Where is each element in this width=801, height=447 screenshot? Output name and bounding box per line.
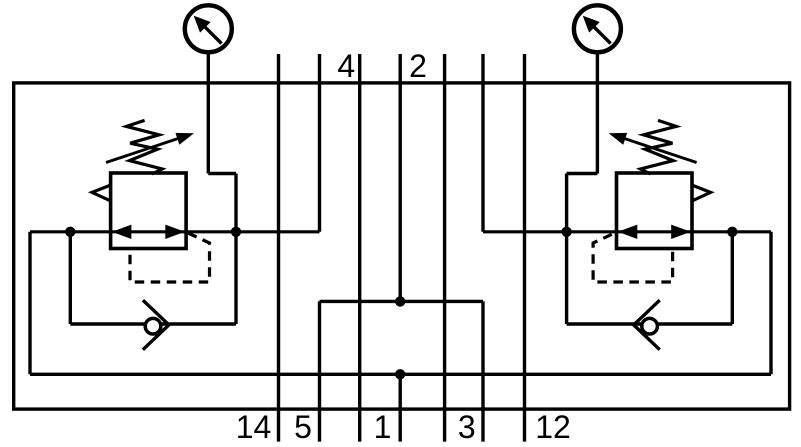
svg-text:2: 2 bbox=[409, 48, 427, 84]
svg-text:14: 14 bbox=[236, 409, 272, 445]
svg-text:1: 1 bbox=[374, 409, 392, 445]
svg-text:4: 4 bbox=[337, 48, 355, 84]
svg-text:3: 3 bbox=[458, 409, 476, 445]
svg-text:5: 5 bbox=[294, 409, 312, 445]
svg-text:12: 12 bbox=[535, 409, 571, 445]
